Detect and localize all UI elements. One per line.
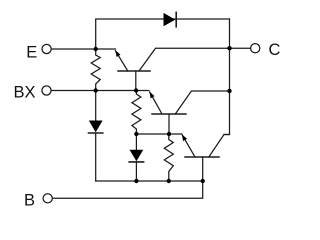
wire node-A row: [136, 133, 181, 135]
wire B row: [53, 181, 203, 198]
wire node-B row: [96, 180, 203, 182]
junction at BX row / Q1 base: [134, 88, 138, 92]
junction at C row / right rail: [227, 46, 231, 50]
resistor R3: [164, 134, 173, 181]
node BX terminal: [13, 84, 51, 102]
resistor R2: [132, 91, 141, 135]
node E terminal: [26, 43, 51, 61]
junction at BX row / R1-D1: [94, 88, 98, 92]
wire BX row: [52, 90, 149, 92]
transistor Q1: [115, 48, 229, 90]
junction at node-B row / R3: [167, 179, 171, 183]
diode D2: [129, 134, 143, 181]
resistor R1: [91, 49, 100, 91]
transistor Q2: [149, 91, 229, 134]
junction at node-A row / Q2 base: [167, 132, 171, 136]
wire top rail: [96, 19, 230, 49]
wire C row: [230, 47, 251, 49]
node C terminal: [251, 41, 281, 59]
wire E row: [52, 48, 116, 50]
svg-text:B: B: [24, 191, 35, 209]
svg-text:E: E: [26, 43, 37, 61]
node B terminal: [24, 191, 52, 209]
junction at E row / top rail: [94, 47, 98, 51]
junction at Q2 collector / right rail: [227, 89, 231, 93]
svg-text:BX: BX: [13, 84, 35, 102]
junction at node-B row / D2: [134, 179, 138, 183]
transistor Q3: [182, 134, 230, 181]
junction at node-A row / R2-D2: [134, 132, 138, 136]
diode D1: [89, 91, 103, 182]
wire right rail: [224, 19, 230, 135]
svg-text:C: C: [269, 41, 281, 59]
diode D3: [164, 12, 177, 26]
junction at node-B row / Q3 base: [201, 179, 205, 183]
